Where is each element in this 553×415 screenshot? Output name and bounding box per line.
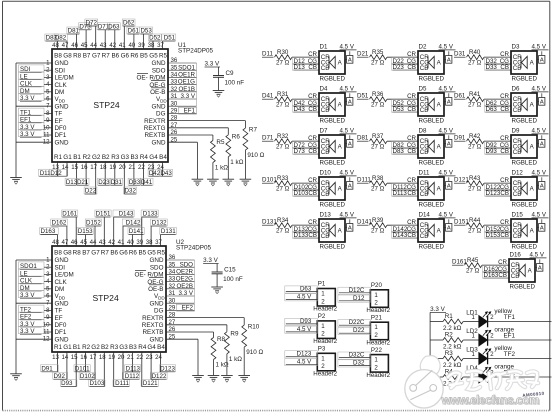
svg-text:D111: D111 (357, 177, 371, 184)
svg-text:G8: G8 (63, 250, 72, 257)
svg-text:A: A (348, 142, 352, 148)
node D63 (pin 42) wire and net label (107, 23, 120, 49)
LED LD2 (orange) (463, 327, 514, 346)
svg-text:RGBLED: RGBLED (320, 118, 346, 125)
node D22 to P21 pin 2 (338, 327, 371, 334)
svg-text:27 Ω: 27 Ω (276, 186, 290, 193)
net label D103 to D10 CB (293, 189, 320, 197)
svg-text:RGBLED: RGBLED (419, 76, 445, 83)
svg-text:CR: CR (500, 135, 509, 142)
ground symbol below U2 pin 25 (192, 376, 204, 383)
svg-text:CR: CR (498, 259, 507, 266)
anode tab A of D12 to 4.5 V (532, 170, 549, 190)
wire R42 to D9 CR (484, 135, 511, 142)
svg-text:14: 14 (62, 354, 69, 361)
svg-text:D33: D33 (129, 179, 141, 186)
svg-text:G2: G2 (91, 344, 100, 351)
RGB LED module D15 (511, 212, 537, 251)
svg-text:R10: R10 (248, 324, 260, 331)
net label D51 (357, 93, 369, 100)
ground symbol below R8 (208, 376, 220, 383)
node D42 (pin 23) wire and net label (148, 162, 161, 177)
svg-text:2: 2 (374, 332, 378, 339)
svg-text:CB: CB (321, 233, 330, 240)
svg-text:DM: DM (55, 89, 65, 96)
svg-text:1 kΩ: 1 kΩ (215, 165, 228, 172)
node EF2 wire from LD4 (488, 370, 552, 377)
node D91 (pin 13) wire and net label (41, 352, 59, 372)
svg-text:37: 37 (155, 239, 162, 246)
wire U2 pin 25 GND to ground (166, 339, 198, 375)
net label D163 to D16 CB (483, 271, 510, 279)
svg-text:D22: D22 (85, 188, 97, 195)
svg-text:D5: D5 (419, 86, 427, 93)
wire R37 to D8 CR (387, 135, 418, 142)
net label D161 (452, 259, 467, 266)
resistor R6 1 k&#937; (168, 128, 244, 179)
svg-text:D4: D4 (320, 86, 328, 93)
connector P20 Header2 (366, 282, 390, 314)
svg-text:D111: D111 (115, 380, 129, 387)
power node 3.3 V rail for status LEDs (430, 306, 446, 377)
svg-text:Header2: Header2 (313, 371, 337, 378)
svg-text:RGBLED: RGBLED (510, 284, 536, 291)
svg-text:46: 46 (71, 42, 78, 49)
node DM label (pin 5) with wire (19, 87, 53, 95)
svg-text:REXTB: REXTB (143, 329, 164, 336)
svg-text:D143: D143 (119, 211, 134, 218)
svg-text:40: 40 (127, 239, 134, 246)
svg-text:4.5 V: 4.5 V (340, 44, 355, 51)
svg-text:D72: D72 (86, 20, 98, 27)
svg-text:D53: D53 (140, 28, 152, 35)
svg-text:D91: D91 (454, 135, 466, 142)
IC U2 reference designator (176, 239, 211, 252)
svg-text:R30: R30 (277, 49, 289, 56)
svg-text:CR: CR (500, 93, 509, 100)
resistor R43 27 Ohm (467, 175, 485, 193)
node TF2 wire from LD3 (488, 351, 552, 358)
node D33 (pin 21) wire and net label (128, 162, 141, 186)
net label D52 to D5 CG (392, 100, 419, 108)
node D12 (pin 14) wire and net label (50, 162, 68, 177)
svg-text:D92: D92 (54, 373, 66, 380)
svg-text:CB: CB (420, 107, 429, 114)
resistor R45 27 Ohm (465, 257, 483, 275)
net label D83 to D8 CB (392, 147, 419, 155)
svg-text:GND: GND (150, 257, 164, 264)
svg-text:D16: D16 (510, 252, 522, 259)
svg-text:2: 2 (321, 298, 325, 305)
svg-text:17: 17 (90, 164, 97, 171)
net label D132 to D13 CG (293, 226, 320, 234)
node D132 (pin 38) wire and net label (150, 219, 167, 246)
ground symbol below R9 (221, 376, 233, 383)
svg-text:R3: R3 (445, 350, 454, 357)
connector P1 Header2 (313, 281, 337, 313)
svg-text:D51: D51 (357, 93, 369, 100)
anode tab A of D13 to 4.5 V (340, 212, 357, 232)
wire R44 to D15 CR (484, 219, 511, 226)
IC U2 pin numbers (43, 239, 176, 361)
svg-text:R42: R42 (469, 133, 481, 140)
svg-text:Header2: Header2 (366, 339, 390, 346)
svg-text:D163: D163 (41, 228, 56, 235)
connector P2 Header2 (313, 313, 337, 345)
svg-text:G5: G5 (147, 250, 156, 257)
svg-text:G6: G6 (119, 250, 128, 257)
resistor R42 27 Ohm (467, 133, 485, 151)
resistor R9 1 k&#937; (166, 325, 242, 376)
svg-text:D32: D32 (125, 188, 137, 195)
svg-text:27 Ω: 27 Ω (468, 102, 482, 109)
svg-text:R36: R36 (372, 91, 384, 98)
wire R36 to D5 CR (387, 93, 418, 100)
svg-text:R6: R6 (232, 133, 241, 140)
svg-text:4.5 V: 4.5 V (439, 86, 454, 93)
svg-text:19: 19 (109, 164, 116, 171)
svg-text:R39: R39 (372, 217, 384, 224)
svg-text:EF1: EF1 (184, 108, 196, 115)
resistor R2 2.2 kOhm (430, 332, 463, 351)
node D152 (pin 44) wire and net label (85, 219, 101, 246)
svg-text:DG: DG (156, 111, 166, 118)
net label D143 to D14 CB (392, 231, 419, 239)
node D41 (pin 22) wire and net label (140, 162, 153, 186)
node D121 (pin 22) wire and net label (141, 352, 158, 387)
IC U1 STP24DP05 body (52, 49, 168, 162)
svg-text:D61: D61 (128, 28, 140, 35)
svg-text:G7: G7 (91, 250, 100, 257)
svg-text:44: 44 (90, 239, 97, 246)
net label D41 (262, 93, 274, 100)
svg-text:STP24: STP24 (92, 293, 118, 303)
resistor R4 2.2 kOhm (430, 369, 463, 388)
svg-text:D6: D6 (512, 86, 520, 93)
node D71 (pin 43) wire and net label (97, 23, 110, 49)
node SDO1 label (pin 2) with wire (19, 262, 53, 270)
resistor R1 2.2 kOhm (430, 313, 463, 332)
svg-text:1: 1 (321, 291, 325, 298)
node D103 (pin 18) wire and net label (89, 352, 105, 387)
RGB LED module D14 (418, 212, 444, 251)
svg-text:CB: CB (321, 107, 330, 114)
svg-text:R33: R33 (277, 175, 289, 182)
watermark Chinese calligraphy (decorative) (448, 371, 538, 390)
svg-text:A: A (447, 58, 451, 64)
node 3.3 V label at U1 pin 31 (181, 93, 196, 100)
node EF1 label (pin 9) with wire (19, 115, 53, 123)
svg-text:A: A (447, 184, 451, 190)
IC U2 internal pin names (54, 250, 166, 351)
svg-text:27 Ω: 27 Ω (276, 144, 290, 151)
net label D61 (454, 93, 466, 100)
svg-text:A: A (540, 184, 544, 190)
svg-text:CB: CB (420, 65, 429, 72)
svg-text:OE2G: OE2G (176, 276, 193, 283)
svg-text:R5: R5 (159, 53, 168, 60)
svg-text:RGBLED: RGBLED (320, 202, 346, 209)
svg-text:B2: B2 (102, 154, 110, 161)
resistor R5 1 k&#937; (168, 135, 228, 179)
resistor R7 910 &#937; (168, 121, 265, 180)
svg-text:18: 18 (100, 164, 107, 171)
node D43 (pin 24) wire and net label (160, 162, 173, 177)
svg-text:RGBLED: RGBLED (512, 76, 538, 83)
svg-text:TF2: TF2 (504, 351, 516, 358)
svg-text:22: 22 (138, 164, 145, 171)
svg-text:P20: P20 (371, 282, 383, 289)
capacitor C15 100 nF (212, 264, 243, 288)
svg-text:P21: P21 (371, 314, 383, 321)
net label D13 to D1 CB (293, 63, 320, 71)
svg-text:A: A (538, 266, 542, 272)
svg-text:STP24DP05: STP24DP05 (178, 48, 213, 55)
svg-text:B6: B6 (110, 250, 118, 257)
svg-text:GND: GND (55, 139, 69, 146)
svg-text:B8: B8 (54, 53, 62, 60)
svg-text:A: A (348, 184, 352, 190)
net label D43 to D4 CB (293, 105, 320, 113)
node D73 (pin 45) wire and net label (79, 23, 92, 49)
svg-text:D12: D12 (50, 170, 62, 177)
anode tab A of D15 to 4.5 V (532, 212, 549, 232)
svg-text:D7: D7 (320, 128, 328, 135)
watermark www.elecfans.com text (decorative) (441, 393, 541, 408)
node D11 (pin 13) wire and net label (39, 162, 59, 177)
svg-text:D132: D132 (152, 220, 167, 227)
svg-text:D152: D152 (86, 220, 101, 227)
svg-text:REXTG: REXTG (144, 125, 166, 132)
svg-text:D102: D102 (80, 373, 95, 380)
node D131 (pin 37) wire and net label (160, 228, 177, 247)
net label D111 (357, 177, 371, 184)
svg-text:R9: R9 (230, 330, 239, 337)
connector P22 Header2 (366, 347, 390, 379)
U2 right-side pin stub wires and label boxes (166, 260, 195, 310)
node D13 (pin 15) wire and net label (65, 162, 78, 186)
svg-text:G4: G4 (149, 154, 158, 161)
svg-text:1: 1 (374, 292, 378, 299)
svg-text:RGBLED: RGBLED (320, 244, 346, 251)
node D82 (pin 47) wire and net label (54, 34, 68, 49)
wire R40 to D3 CR (484, 51, 511, 58)
svg-text:B6: B6 (111, 53, 119, 60)
svg-text:A: A (540, 142, 544, 148)
svg-text:D123: D123 (160, 365, 175, 372)
node 3.3 V label (pin 11) with wire (19, 130, 53, 138)
svg-text:B5: B5 (140, 53, 148, 60)
svg-text:SDO: SDO (150, 264, 164, 271)
RGB LED module D8 (418, 128, 444, 167)
net label D131 (262, 219, 277, 226)
svg-text:LE/DM: LE/DM (55, 272, 74, 279)
anode tab A of D2 to 4.5 V (439, 44, 456, 64)
ground symbol below R7 (240, 179, 252, 186)
svg-text:R5: R5 (216, 139, 225, 146)
node D93 to P2 pin 1 (285, 318, 318, 326)
connector P3 Header2 (313, 346, 337, 378)
svg-text:RGBLED: RGBLED (320, 160, 346, 167)
svg-text:1: 1 (321, 355, 325, 362)
svg-text:27 Ω: 27 Ω (371, 144, 385, 151)
svg-text:R8: R8 (73, 250, 82, 257)
svg-text:GND: GND (55, 60, 69, 67)
svg-text:B1: B1 (73, 154, 81, 161)
svg-text:R35: R35 (372, 49, 384, 56)
svg-text:GND: GND (150, 336, 164, 343)
svg-text:D23: D23 (98, 179, 110, 186)
svg-text:B3: B3 (129, 344, 137, 351)
node D163 (pin 48) wire and net label (40, 228, 59, 247)
svg-text:41: 41 (119, 42, 126, 49)
svg-text:13: 13 (52, 354, 59, 361)
svg-text:STP24: STP24 (93, 100, 119, 110)
node SDI label (pin 2) with wire (19, 65, 53, 73)
wire R33 to D10 CR (292, 177, 319, 184)
svg-text:47: 47 (62, 239, 69, 246)
net label D93 to D9 CB (485, 147, 512, 155)
svg-text:REXTR: REXTR (144, 118, 166, 125)
net label D121 (454, 177, 469, 184)
node EF2 label (pin 9) with wire (19, 312, 53, 320)
svg-text:DF1: DF1 (55, 329, 67, 336)
net label D92 to D9 CG (485, 142, 512, 150)
svg-text:LE/DM: LE/DM (55, 75, 74, 82)
anode tab A of D14 to 4.5 V (439, 212, 456, 232)
net label D112 to D11 CG (392, 184, 419, 192)
svg-text:R8: R8 (73, 53, 82, 60)
svg-text:17: 17 (90, 354, 97, 361)
svg-text:R2: R2 (445, 332, 454, 339)
svg-text:15: 15 (71, 354, 78, 361)
svg-text:3.3 V: 3.3 V (181, 93, 196, 100)
node D133 (pin 39) wire and net label (141, 210, 158, 246)
svg-text:R4: R4 (138, 344, 147, 351)
svg-text:EF1: EF1 (503, 333, 515, 340)
svg-text:100 nF: 100 nF (225, 80, 245, 87)
net label D82 to D8 CG (392, 142, 419, 150)
svg-text:GND: GND (55, 300, 69, 307)
resistor R10 910 &#937; (166, 318, 263, 376)
node D93 (pin 15) wire and net label (60, 352, 77, 387)
net label D53 to D5 CB (392, 105, 419, 113)
svg-text:REXTB: REXTB (145, 132, 166, 139)
svg-text:C9: C9 (226, 70, 235, 77)
node D122 (pin 23) wire and net label (150, 352, 167, 380)
node 3.3 V label at U2 pin 31 (179, 290, 194, 297)
anode tab A of D16 to 4.5 V (530, 252, 547, 272)
svg-text:B1: B1 (73, 344, 81, 351)
svg-text:G7: G7 (92, 53, 101, 60)
net label D123 to D12 CB (485, 189, 512, 197)
svg-text:A: A (540, 58, 544, 64)
node D112 (pin 20) wire and net label (122, 352, 140, 380)
svg-text:P3: P3 (318, 346, 326, 353)
svg-text:GND: GND (152, 60, 166, 67)
node OE2B label at U2 pin 32 (176, 283, 193, 290)
net label D141 (357, 219, 372, 226)
svg-text:R2: R2 (83, 154, 92, 161)
svg-text:GND: GND (55, 103, 69, 110)
svg-text:D11: D11 (419, 170, 430, 177)
svg-text:GND: GND (152, 103, 166, 110)
net label D162 to D16 CG (483, 266, 510, 274)
node D123 to P3 pin 1 (285, 350, 318, 358)
svg-text:CLK: CLK (55, 279, 68, 286)
node D123 (pin 24) wire and net label (159, 352, 175, 372)
svg-text:G1: G1 (63, 344, 72, 351)
svg-text:R6: R6 (130, 53, 139, 60)
svg-text:OE1G: OE1G (178, 79, 195, 86)
svg-text:RGBLED: RGBLED (512, 202, 538, 209)
node TF1 wire from LD1 (488, 314, 552, 321)
svg-text:CLK: CLK (55, 82, 68, 89)
svg-text:CB: CB (321, 149, 330, 156)
svg-text:43: 43 (99, 239, 106, 246)
svg-text:D82: D82 (55, 35, 67, 42)
net label D133 to D13 CB (293, 231, 320, 239)
RGB LED module D4 (319, 86, 345, 125)
svg-text:CR: CR (500, 51, 509, 58)
wire R43 to D12 CR (484, 177, 511, 184)
node D81 (pin 46) wire and net label (67, 27, 80, 49)
anode tab A of D8 to 4.5 V (439, 128, 456, 148)
resistor R44 27 Ohm (467, 217, 485, 235)
svg-text:RGBLED: RGBLED (419, 244, 445, 251)
svg-text:R7: R7 (102, 53, 111, 60)
svg-text:R3: R3 (111, 154, 120, 161)
net label D31 (454, 51, 466, 58)
net label D73 to D7 CB (293, 147, 320, 155)
svg-text:2: 2 (374, 364, 378, 371)
svg-text:D11: D11 (262, 51, 273, 58)
svg-text:24: 24 (155, 354, 162, 361)
svg-text:27 Ω: 27 Ω (276, 60, 290, 67)
svg-text:D142: D142 (126, 220, 141, 227)
node D92 (pin 14) wire and net label (53, 352, 68, 380)
net label D142 to D14 CG (392, 226, 419, 234)
svg-text:A: A (540, 226, 544, 232)
node D72 (pin 44) wire and net label (85, 19, 98, 49)
svg-text:D151: D151 (96, 211, 111, 218)
svg-text:OE-B: OE-B (150, 89, 165, 96)
node EF2 label at U2 pin 29 (177, 304, 195, 311)
svg-text:D3: D3 (512, 44, 520, 51)
node 3.3 V label (pin 6) with wire (19, 94, 53, 102)
svg-text:3.3 V: 3.3 V (205, 61, 221, 68)
svg-text:45: 45 (80, 239, 87, 246)
svg-text:SDI: SDI (55, 67, 66, 74)
svg-text:RGBLED: RGBLED (419, 160, 445, 167)
RGB LED module D7 (319, 128, 345, 167)
node D62 (pin 41) wire and net label (122, 19, 135, 49)
svg-text:44: 44 (90, 42, 97, 49)
svg-text:D131: D131 (161, 228, 176, 235)
svg-text:21: 21 (127, 354, 134, 361)
node 4.5 V to P2 pin 2 (285, 326, 318, 333)
anode tab A of D9 to 4.5 V (532, 128, 549, 148)
svg-text:DM: DM (55, 286, 65, 293)
node D32C to P22 pin 1 (338, 352, 371, 360)
svg-text:SDI: SDI (55, 264, 66, 271)
RGB LED module D1 (319, 44, 345, 83)
anode tab A of D1 to 4.5 V (340, 44, 357, 64)
IC U2 STP24DP05 body (52, 246, 166, 352)
node DM label (pin 5) with wire (19, 284, 53, 292)
resistor R8 1 k&#937; (166, 332, 229, 376)
net label D12 to D1 CG (293, 58, 320, 66)
